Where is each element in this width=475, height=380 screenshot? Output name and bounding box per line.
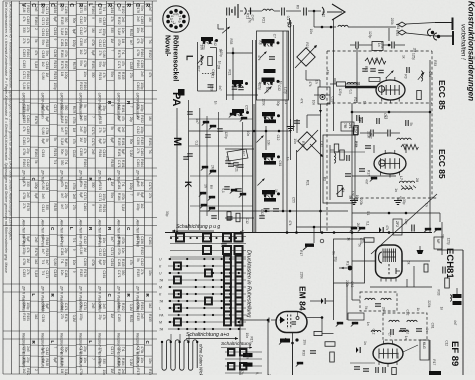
wire <box>352 212 440 214</box>
svg-text:R191: R191 <box>98 73 102 81</box>
label box <box>341 122 354 131</box>
table cell lines <box>19 4 152 368</box>
svg-text:5k: 5k <box>341 189 345 193</box>
wire <box>462 250 464 375</box>
svg-text:9: 9 <box>91 204 95 206</box>
box small r <box>348 313 364 320</box>
svg-text:R17: R17 <box>366 170 370 176</box>
svg-text:C12: C12 <box>276 135 280 141</box>
corner wire <box>218 24 224 29</box>
svg-text:Drucktasten in Ruhestellung: Drucktasten in Ruhestellung <box>246 250 252 317</box>
svg-text:1M: 1M <box>110 369 114 374</box>
svg-text:AM-Teil NF-Teil: AM-Teil NF-Teil <box>22 219 27 247</box>
main bus <box>165 232 432 234</box>
wire <box>348 26 396 28</box>
wire <box>290 20 292 160</box>
svg-text:1M: 1M <box>45 73 49 78</box>
svg-text:R135: R135 <box>136 269 140 277</box>
svg-text:C183: C183 <box>22 60 26 68</box>
svg-text:C171: C171 <box>91 127 95 135</box>
svg-text:10n: 10n <box>302 339 306 345</box>
svg-text:47k: 47k <box>241 230 245 236</box>
svg-text:C171: C171 <box>110 347 114 355</box>
svg-text:10n: 10n <box>312 100 316 106</box>
svg-text:R164: R164 <box>26 49 30 57</box>
resistor R5 <box>330 144 339 152</box>
resistor R2 <box>208 57 213 66</box>
svg-text:9: 9 <box>110 105 114 107</box>
wire <box>407 266 414 287</box>
svg-text:C171: C171 <box>91 138 95 146</box>
svg-text:C161: C161 <box>53 28 57 36</box>
ground <box>287 124 295 131</box>
antenna terminal T1 <box>435 18 453 31</box>
svg-text:UKW-Baustein: UKW-Baustein <box>98 93 103 120</box>
screen dashed right <box>431 51 433 198</box>
svg-text:25p: 25p <box>64 248 68 254</box>
svg-text:R17: R17 <box>432 359 436 365</box>
svg-text:C161: C161 <box>64 39 68 47</box>
svg-text:125p: 125p <box>338 88 342 95</box>
label K <box>183 181 193 188</box>
switch contact <box>350 227 365 232</box>
svg-text:C171: C171 <box>45 7 49 15</box>
svg-text:R21: R21 <box>262 17 266 23</box>
svg-text:0,1: 0,1 <box>348 90 352 95</box>
svg-text:2n5: 2n5 <box>41 194 45 200</box>
svg-text:47k: 47k <box>148 72 152 78</box>
svg-text:ZF-Teil: ZF-Teil <box>136 169 141 182</box>
svg-text:0,1M: 0,1M <box>79 247 83 254</box>
slanted shield box <box>227 149 248 161</box>
capacitor <box>221 244 227 246</box>
svg-text:UKW-Baustein: UKW-Baustein <box>79 93 84 120</box>
svg-text:10n: 10n <box>102 260 106 266</box>
svg-text:8µF: 8µF <box>98 260 102 266</box>
table grid vertical lines <box>3 1 152 374</box>
resistor R9 <box>372 42 383 51</box>
capacitor C18 <box>412 225 414 232</box>
svg-text:470k: 470k <box>22 192 26 199</box>
node <box>267 316 324 344</box>
svg-text:30p: 30p <box>276 101 280 107</box>
svg-text:8µF: 8µF <box>121 149 125 155</box>
vertical <box>253 104 255 233</box>
svg-text:1M: 1M <box>110 314 114 319</box>
svg-text:C156: C156 <box>83 258 87 266</box>
svg-text:Bei Kondensatoren: K = Keramik: Bei Kondensatoren: K = Keramik-Kondensat… <box>4 2 8 273</box>
svg-text:C12: C12 <box>245 218 249 224</box>
wire <box>314 11 336 27</box>
svg-text:L: L <box>88 341 93 344</box>
svg-text:0,1M: 0,1M <box>117 28 121 35</box>
component value labels texture <box>165 5 457 379</box>
svg-text:25p: 25p <box>26 148 30 154</box>
resistor R22 <box>445 278 450 288</box>
svg-text:R21: R21 <box>228 70 232 76</box>
svg-text:C161: C161 <box>148 237 152 245</box>
svg-text:C42: C42 <box>428 71 432 77</box>
svg-text:470k: 470k <box>136 49 140 56</box>
trimmer C21 <box>257 178 264 185</box>
svg-text:C7: C7 <box>387 333 391 337</box>
svg-text:1M: 1M <box>148 116 152 121</box>
svg-text:5k: 5k <box>45 139 49 143</box>
svg-text:1k2: 1k2 <box>148 303 152 308</box>
tuner box 2 <box>257 31 289 100</box>
inductor arrow <box>197 55 203 65</box>
svg-text:TA: TA <box>159 328 164 332</box>
svg-text:C: C <box>49 3 55 7</box>
svg-text:R164: R164 <box>60 50 64 58</box>
svg-text:27k: 27k <box>136 148 140 154</box>
label PA <box>170 92 182 107</box>
svg-text:8µF: 8µF <box>79 192 83 198</box>
svg-text:0,1M: 0,1M <box>34 270 38 277</box>
switch contact <box>424 228 441 233</box>
coil L6 <box>397 138 411 140</box>
capacitor <box>187 112 193 114</box>
svg-text:R135: R135 <box>53 204 57 212</box>
svg-text:47k: 47k <box>385 225 389 231</box>
diode <box>320 94 325 99</box>
switch contact w5 <box>199 192 206 197</box>
capacitor <box>225 161 231 163</box>
svg-text:47k: 47k <box>326 70 330 76</box>
label M <box>171 137 183 146</box>
svg-text:Tr1: Tr1 <box>121 182 125 187</box>
svg-text:4n7: 4n7 <box>195 118 199 124</box>
dashed IF box 1 <box>360 292 397 311</box>
terminal tick <box>250 8 252 15</box>
resistor R22b <box>424 264 428 272</box>
wire <box>286 31 288 233</box>
svg-text:220k: 220k <box>359 198 363 205</box>
capacitor C5 <box>232 87 244 90</box>
svg-text:C171: C171 <box>110 248 114 256</box>
capacitor C25 <box>227 217 233 219</box>
svg-text:220k: 220k <box>427 300 431 307</box>
switch contact w11 <box>230 189 237 194</box>
svg-text:R191: R191 <box>91 61 95 69</box>
svg-text:0,1M: 0,1M <box>129 359 133 366</box>
svg-text:330: 330 <box>98 18 102 24</box>
svg-text:C171: C171 <box>41 18 45 26</box>
capacitor C17 <box>359 146 371 171</box>
plug socket 1 <box>428 29 435 36</box>
wire <box>313 227 315 243</box>
svg-text:R135: R135 <box>79 269 83 277</box>
svg-text:220k: 220k <box>299 272 303 279</box>
svg-text:47k: 47k <box>102 315 106 321</box>
power box <box>334 239 365 283</box>
svg-text:27k: 27k <box>110 17 114 23</box>
svg-text:47k: 47k <box>102 73 106 79</box>
svg-text:125p: 125p <box>258 83 262 90</box>
svg-text:47k: 47k <box>240 369 244 375</box>
svg-text:ZF-Teil: ZF-Teil <box>98 169 103 182</box>
bandfilter diamond 2 <box>298 132 316 150</box>
antenna terminal T2 <box>435 31 453 45</box>
svg-text:27k: 27k <box>22 38 26 44</box>
svg-text:C161: C161 <box>64 182 68 190</box>
ground <box>350 198 402 205</box>
bandfilter diamond 1 <box>297 48 315 66</box>
svg-text:1n: 1n <box>278 81 282 85</box>
svg-text:C142: C142 <box>98 249 102 257</box>
svg-text:50n: 50n <box>98 62 102 68</box>
tuner box <box>198 42 217 91</box>
svg-text:R191: R191 <box>45 249 49 257</box>
svg-text:R17: R17 <box>301 141 305 147</box>
svg-text:KLG: KLG <box>422 342 426 349</box>
label Schaltrichtung pug <box>176 224 220 230</box>
svg-text:1M: 1M <box>79 137 83 142</box>
bus nodes <box>176 231 391 234</box>
capacitor C14e <box>407 67 409 73</box>
svg-text:C156: C156 <box>64 6 68 14</box>
wire <box>255 40 257 233</box>
capacitor C33 <box>354 367 369 371</box>
svg-text:7: 7 <box>177 15 181 17</box>
wire <box>296 226 356 228</box>
svg-text:L7: L7 <box>399 176 403 180</box>
table row label letters <box>20 3 150 344</box>
svg-text:470k: 470k <box>22 148 26 155</box>
svg-text:100p: 100p <box>102 194 106 201</box>
wire <box>439 213 441 222</box>
svg-text:4n7: 4n7 <box>242 151 246 157</box>
svg-text:10n: 10n <box>293 138 297 144</box>
svg-text:R191: R191 <box>83 181 87 189</box>
svg-text:Röhrensockel: Röhrensockel <box>172 35 179 81</box>
svg-text:0,1: 0,1 <box>221 188 225 193</box>
svg-text:R135: R135 <box>148 369 152 375</box>
svg-text:C161: C161 <box>41 150 45 158</box>
dial lamp <box>339 266 352 271</box>
label Konstruktionsaenderungen <box>467 1 475 101</box>
label EF89 <box>449 341 460 366</box>
svg-text:Tr1: Tr1 <box>41 271 45 276</box>
wire <box>291 119 298 133</box>
svg-text:R191: R191 <box>148 138 152 146</box>
coil bar B <box>264 69 276 73</box>
svg-text:4n7: 4n7 <box>365 179 369 185</box>
svg-text:4n7: 4n7 <box>405 329 409 335</box>
svg-text:C: C <box>68 3 74 7</box>
svg-text:30p: 30p <box>259 40 263 46</box>
svg-text:27k: 27k <box>60 314 64 320</box>
wire <box>320 104 322 211</box>
svg-text:R191: R191 <box>53 61 57 69</box>
wire <box>189 145 253 147</box>
wire <box>388 28 390 41</box>
svg-text:R17: R17 <box>196 66 200 72</box>
svg-text:UKW-Baustein: UKW-Baustein <box>41 93 46 120</box>
svg-text:ZF II Ratiofilter: ZF II Ratiofilter <box>41 285 46 313</box>
svg-text:M: M <box>159 286 162 290</box>
label Schaltrichtung 2 <box>221 341 252 349</box>
svg-text:9: 9 <box>53 39 57 41</box>
resistor R12 <box>364 238 374 242</box>
svg-text:470k: 470k <box>45 128 49 135</box>
svg-text:2M: 2M <box>374 58 378 63</box>
svg-text:UKW-Baustein: UKW-Baustein <box>22 93 27 120</box>
svg-text:220k: 220k <box>380 42 384 49</box>
svg-text:R21: R21 <box>265 87 269 93</box>
svg-text:C156: C156 <box>64 127 68 135</box>
coil L3 <box>347 82 357 84</box>
svg-text:9: 9 <box>72 271 76 273</box>
svg-text:R33: R33 <box>395 353 399 359</box>
capacitor <box>187 154 193 156</box>
tube ECC85 no.2 <box>374 150 406 178</box>
svg-text:10n: 10n <box>136 27 140 33</box>
svg-text:1n: 1n <box>358 118 362 122</box>
svg-text:AM-Teil NF-Teil: AM-Teil NF-Teil <box>41 219 46 247</box>
connector diamond 2 <box>398 30 406 35</box>
tube ECC85 no.1 <box>376 77 405 104</box>
svg-text:ZF-Teil: ZF-Teil <box>22 169 27 182</box>
connector curve <box>245 8 247 15</box>
svg-text:Schaltrichtung: Schaltrichtung <box>221 341 252 347</box>
label Schaltrichtung a+o <box>186 332 238 340</box>
capacitor C16 <box>388 130 390 137</box>
svg-text:ZF II Ratiofilter: ZF II Ratiofilter <box>22 285 27 313</box>
svg-text:10n: 10n <box>60 270 64 276</box>
trimmer C6 <box>259 51 266 58</box>
svg-text:C42: C42 <box>383 113 387 119</box>
svg-text:EM 84: EM 84 <box>298 286 308 311</box>
svg-text:5k: 5k <box>358 243 362 247</box>
switch contact w6 <box>208 196 215 201</box>
screen dashed vertical <box>326 51 328 232</box>
wire <box>240 319 269 321</box>
svg-text:330: 330 <box>121 270 125 276</box>
wire <box>239 320 241 375</box>
svg-text:5k: 5k <box>406 261 410 265</box>
svg-text:125p: 125p <box>412 53 416 60</box>
svg-text:C183: C183 <box>140 16 144 24</box>
svg-text:1k: 1k <box>401 55 405 59</box>
svg-text:ZF-Teil: ZF-Teil <box>41 169 46 182</box>
svg-text:R: R <box>58 3 64 7</box>
tube EF89 <box>373 340 403 367</box>
svg-text:C161: C161 <box>117 259 121 267</box>
svg-text:R135: R135 <box>110 160 114 168</box>
svg-text:C: C <box>134 3 140 7</box>
switch matrix main <box>168 256 246 331</box>
svg-text:27k: 27k <box>140 269 144 275</box>
wire <box>351 103 353 233</box>
svg-text:Tr1: Tr1 <box>64 160 68 165</box>
wire <box>188 100 190 230</box>
svg-text:47k: 47k <box>136 38 140 44</box>
svg-text:5k: 5k <box>34 160 38 164</box>
svg-text:27k: 27k <box>83 27 87 33</box>
wire <box>292 343 294 375</box>
svg-text:10n: 10n <box>72 260 76 266</box>
svg-text:2M: 2M <box>415 178 419 183</box>
label EM84 <box>298 286 308 311</box>
small circle <box>320 239 324 243</box>
resistor Rb2 <box>236 213 240 222</box>
svg-text:470k: 470k <box>91 39 95 46</box>
svg-text:25p: 25p <box>140 38 144 44</box>
svg-text:C183: C183 <box>26 16 30 24</box>
svg-text:2n5: 2n5 <box>91 149 95 155</box>
svg-text:AM-Teil NF-Teil: AM-Teil NF-Teil <box>60 219 65 247</box>
svg-text:100p: 100p <box>140 126 144 133</box>
svg-text:Netzteil u. Endstufe: Netzteil u. Endstufe <box>136 333 141 368</box>
svg-text:R: R <box>125 3 131 7</box>
thick cable <box>345 86 377 88</box>
svg-text:1k: 1k <box>357 82 361 86</box>
svg-text:C61: C61 <box>211 69 215 75</box>
svg-text:100p: 100p <box>22 247 26 254</box>
antenna lead curve <box>322 7 324 15</box>
svg-text:R152: R152 <box>98 205 102 213</box>
svg-text:1n: 1n <box>366 322 370 326</box>
svg-text:47k: 47k <box>26 247 30 253</box>
svg-text:R191: R191 <box>98 183 102 191</box>
svg-text:47k: 47k <box>26 38 30 44</box>
svg-text:Konstruktionsänderungen: Konstruktionsänderungen <box>467 1 475 101</box>
svg-text:R152: R152 <box>79 82 83 90</box>
svg-text:8µF: 8µF <box>140 192 144 198</box>
capacitor C15 <box>371 130 373 137</box>
svg-text:R33: R33 <box>437 290 441 296</box>
svg-text:10n: 10n <box>121 28 125 34</box>
svg-text:1M: 1M <box>60 72 64 77</box>
wire <box>252 40 254 233</box>
svg-text:2n5: 2n5 <box>72 194 76 200</box>
capacitor C1 <box>282 8 285 16</box>
svg-text:2n5: 2n5 <box>91 303 95 309</box>
wire <box>329 145 331 200</box>
svg-text:ZF-Teil: ZF-Teil <box>60 169 65 182</box>
trimmer C3 <box>222 27 230 33</box>
svg-text:C183: C183 <box>22 49 26 57</box>
svg-text:C61: C61 <box>431 323 435 329</box>
svg-text:100p: 100p <box>41 7 45 14</box>
coil L8 <box>334 153 336 163</box>
svg-text:C12: C12 <box>405 310 409 316</box>
svg-text:ZF II Ratiofilter: ZF II Ratiofilter <box>136 285 141 313</box>
svg-text:1M: 1M <box>26 258 30 263</box>
resistor R10 <box>417 91 422 100</box>
wire <box>265 126 267 150</box>
svg-text:C171: C171 <box>98 194 102 202</box>
svg-text:Netzteil u. Endstufe: Netzteil u. Endstufe <box>98 333 103 368</box>
svg-text:C55: C55 <box>291 197 295 203</box>
svg-text:2M: 2M <box>441 234 445 239</box>
svg-text:R17: R17 <box>364 66 368 72</box>
label Drucktasten <box>246 250 252 317</box>
switch contact w12 <box>239 193 246 198</box>
svg-text:50n: 50n <box>41 40 45 46</box>
svg-text:1n: 1n <box>424 203 428 207</box>
svg-text:R: R <box>106 3 112 7</box>
svg-text:0,1: 0,1 <box>365 221 369 226</box>
svg-text:Tr1: Tr1 <box>83 38 87 43</box>
svg-text:47k: 47k <box>288 220 292 226</box>
svg-text:ZF II Ratiofilter: ZF II Ratiofilter <box>79 285 84 313</box>
svg-text:C55: C55 <box>244 105 248 111</box>
svg-text:ZF II Ratiofilter: ZF II Ratiofilter <box>98 285 103 313</box>
svg-text:C161: C161 <box>41 29 45 37</box>
svg-text:R178: R178 <box>136 368 140 375</box>
